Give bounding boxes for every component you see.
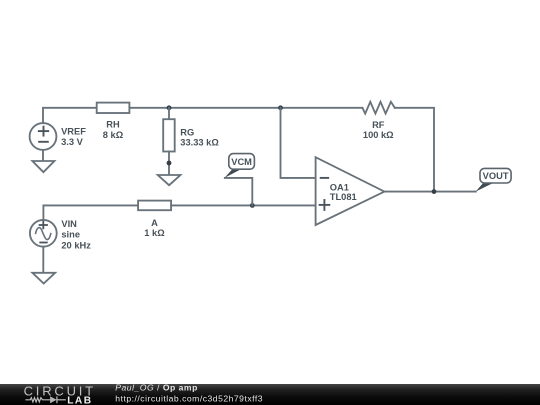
ground under VIN: [32, 273, 55, 284]
svg-text:100 kΩ: 100 kΩ: [363, 130, 394, 140]
flag VCM: [225, 169, 241, 178]
node junction output: [432, 189, 437, 194]
svg-text:sine: sine: [61, 230, 80, 240]
svg-text:http://circuitlab.com/c3d52h79: http://circuitlab.com/c3d52h79txff3: [115, 393, 263, 403]
node dot below RG: [167, 161, 172, 166]
svg-text:VCM: VCM: [231, 157, 252, 167]
wire RH to RF: [129, 107, 362, 109]
svg-text:RH: RH: [106, 120, 120, 130]
svg-text:Paul_OG / Op amp: Paul_OG / Op amp: [115, 382, 198, 392]
resistor RG: [163, 119, 175, 151]
ground under VREF: [32, 161, 54, 172]
output wire: [384, 191, 475, 193]
sine symbol: [36, 228, 51, 240]
node junction VCM: [250, 203, 255, 208]
svg-text:TL081: TL081: [330, 192, 357, 202]
svg-text:33.33 kΩ: 33.33 kΩ: [180, 138, 219, 148]
node junction top of RG: [167, 105, 172, 110]
svg-text:VREF: VREF: [61, 126, 86, 136]
wire VCM flag: [225, 178, 253, 206]
flag VOUT: [476, 183, 494, 192]
svg-text:RF: RF: [372, 120, 385, 130]
ground under RG: [158, 175, 181, 185]
svg-text:VIN: VIN: [61, 219, 77, 229]
resistor A: [138, 201, 171, 211]
wire VIN to ground: [42, 247, 44, 275]
wire VREF to ground: [42, 150, 44, 164]
svg-text:A: A: [151, 218, 158, 228]
resistor RH: [97, 103, 130, 113]
svg-text:VOUT: VOUT: [483, 171, 509, 181]
wire RF to output node: [395, 108, 434, 192]
source VREF: [30, 123, 57, 150]
wire VREF top to RH: [43, 108, 97, 124]
resistor RF (zigzag): [362, 102, 394, 114]
op-amp OA1: [316, 157, 385, 225]
wire RG to ground: [168, 152, 170, 179]
svg-text:LAB: LAB: [67, 395, 92, 405]
wire to inverting input: [281, 108, 316, 178]
svg-text:20 kHz: 20 kHz: [61, 240, 91, 250]
svg-text:RG: RG: [180, 127, 194, 137]
source VIN (sine): [30, 220, 57, 247]
wire VIN top: [43, 205, 138, 220]
wire A to op-amp: [171, 204, 316, 206]
svg-text:8 kΩ: 8 kΩ: [103, 130, 124, 140]
svg-text:3.3 V: 3.3 V: [61, 137, 84, 147]
node junction inverting branch: [278, 105, 283, 110]
logo zigzag + diode: [25, 396, 65, 403]
svg-text:1 kΩ: 1 kΩ: [144, 228, 165, 238]
wire top to RG: [168, 108, 170, 119]
